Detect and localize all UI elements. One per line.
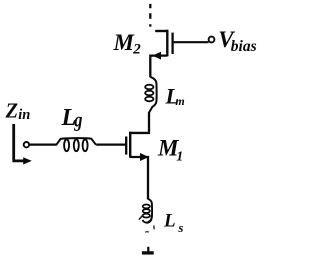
svg-text:bias: bias (231, 38, 257, 55)
inductor Lm : right arch (149, 77, 156, 113)
inductor Ls : ring 2 (143, 209, 150, 213)
wire : M2 gate lead to Vbias terminal (174, 41, 209, 43)
wire : faint stub below Ls (153, 225, 155, 229)
arrow on M2 source (points left) (152, 52, 161, 60)
wire : M2 source lead and down-wire (150, 56, 167, 78)
inductor Lm : ring 2 (145, 91, 153, 96)
inductor Ls : right arch (147, 199, 152, 224)
arrow Zin : bent arrow below label (12, 124, 24, 161)
wire : Lm bottom to M1 drain corner (148, 112, 150, 132)
inductor Lg : ring 1 (64, 139, 69, 151)
wire : M1 drain lead (130, 132, 150, 134)
svg-text:g: g (73, 110, 82, 132)
inductor Ls : bottom curl (143, 216, 152, 223)
ground : bar (142, 251, 154, 254)
svg-text:s: s (177, 220, 183, 235)
svg-text:1: 1 (176, 150, 183, 165)
svg-text:m: m (175, 94, 184, 108)
transistor M2 : gate bar (171, 33, 173, 54)
wire : M1 source lead and down-wire (130, 157, 148, 200)
wire : input wire to M1 gate (29, 144, 125, 146)
inductor Lg : top arch (56, 138, 96, 145)
svg-text:2: 2 (132, 41, 141, 57)
inductor Lg : ring 3 (83, 139, 88, 151)
inductor Lm : ring 1 (145, 85, 153, 90)
svg-text:Z: Z (5, 99, 19, 123)
wire : dashed supply line above M2 drain (149, 4, 151, 27)
ground : stem (147, 247, 149, 252)
node : input terminal circle (24, 142, 29, 147)
wire : M2 drain lead (155, 30, 167, 32)
svg-text:L: L (163, 211, 176, 232)
inductor Ls : ring 1 (143, 205, 150, 209)
inductor Lm : ring 3 (145, 97, 153, 102)
transistor M2 : channel bar (166, 30, 168, 57)
transistor M1 : channel bar (129, 132, 131, 158)
transistor M1 : gate bar (125, 137, 127, 155)
inductor Ls : lower-left streak (139, 215, 143, 220)
inductor Ls : ring 3 (143, 214, 150, 218)
arrow on M1 source (points right) (140, 153, 149, 161)
svg-text:M: M (113, 30, 136, 55)
wire : faint arc fragment below Ls (145, 231, 149, 234)
svg-text:in: in (18, 107, 30, 123)
inductor Lg : ring 2 (74, 139, 79, 151)
node : Vbias terminal circle (209, 37, 215, 43)
